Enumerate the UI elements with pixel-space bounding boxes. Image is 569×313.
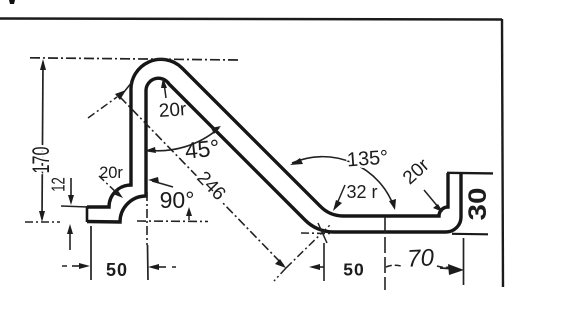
svg-text:30: 30 bbox=[463, 187, 491, 220]
dimension 50 middle: tick left bbox=[323, 243, 325, 281]
radius leader 20r peak bbox=[161, 78, 167, 98]
svg-text:20r: 20r bbox=[399, 154, 434, 188]
svg-text:20r: 20r bbox=[158, 99, 188, 122]
foot top extension line bbox=[61, 206, 88, 207]
dimension 50 left: right arrow bbox=[148, 264, 178, 270]
angle 135 arc bbox=[290, 157, 396, 210]
dimension 50 left: extension tick left bbox=[90, 226, 92, 280]
profile contour inner bbox=[87, 78, 461, 232]
dimension 50 left: left arrow bbox=[62, 263, 90, 269]
radius leader 32r bbox=[333, 185, 345, 211]
angle 90 leader to vertical leg bbox=[148, 177, 173, 187]
svg-text:45°: 45° bbox=[184, 134, 221, 163]
dimension 70: right arrow bbox=[440, 264, 464, 275]
flange top cap and 30-dim top extension bbox=[447, 172, 493, 175]
datum dash-dot top (peak level) bbox=[30, 58, 240, 60]
svg-text:90°: 90° bbox=[160, 187, 195, 213]
dimension 70: leader dashes bbox=[386, 265, 401, 267]
svg-text:246: 246 bbox=[192, 167, 229, 204]
border top line bbox=[0, 19, 502, 20]
radius leader 20r left bbox=[99, 176, 123, 198]
dimension 12 upper arrow bbox=[68, 178, 74, 205]
svg-text:32 r: 32 r bbox=[346, 182, 377, 202]
30-dim bottom extension bbox=[452, 233, 488, 236]
angle 45 arc bbox=[144, 126, 221, 153]
svg-text:170: 170 bbox=[29, 147, 55, 174]
dimension 246 line bbox=[120, 97, 331, 281]
datum dash-dot baseline middle bbox=[137, 220, 208, 223]
profile contour outer bbox=[87, 59, 448, 216]
angle 90 arrow to baseline bbox=[186, 207, 192, 220]
centerline of vertical leg bbox=[146, 192, 148, 245]
svg-text:135°: 135° bbox=[346, 147, 389, 172]
svg-text:50: 50 bbox=[106, 260, 128, 280]
dimension 246 pointer to peak vertex bbox=[88, 82, 132, 118]
datum dash-dot baseline right bbox=[301, 232, 331, 235]
radius leader 20r right bbox=[424, 190, 443, 212]
corner mark top-left bbox=[9, 0, 15, 4]
dimension 50 middle: left arrow bbox=[309, 264, 324, 270]
svg-text:70: 70 bbox=[407, 244, 436, 272]
dimension 12 lower arrow bbox=[67, 224, 73, 250]
dimension 170 line bbox=[39, 59, 46, 222]
profile foot end cap bbox=[86, 206, 89, 222]
border right line bbox=[502, 19, 503, 287]
datum dash-dot baseline left bbox=[25, 221, 60, 223]
svg-text:20r: 20r bbox=[99, 164, 123, 182]
dimension 50 middle: tick right bbox=[384, 217, 386, 290]
dimension 70: extension tick right bbox=[463, 238, 465, 285]
svg-text:50: 50 bbox=[343, 260, 364, 280]
svg-text:12: 12 bbox=[50, 177, 70, 192]
